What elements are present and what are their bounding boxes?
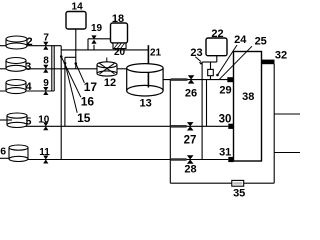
svg-text:38: 38 [242, 91, 254, 103]
svg-text:31: 31 [219, 147, 231, 159]
svg-text:23: 23 [190, 47, 202, 59]
svg-text:18: 18 [112, 13, 124, 25]
svg-text:6: 6 [0, 146, 6, 158]
svg-text:2: 2 [26, 36, 32, 48]
svg-text:27: 27 [184, 134, 197, 146]
svg-text:15: 15 [77, 111, 91, 125]
svg-text:17: 17 [84, 80, 98, 94]
svg-text:28: 28 [184, 163, 196, 175]
svg-text:13: 13 [139, 98, 151, 110]
svg-text:7: 7 [43, 33, 49, 44]
svg-text:26: 26 [185, 88, 197, 100]
svg-text:16: 16 [81, 94, 95, 108]
svg-text:9: 9 [43, 78, 49, 89]
svg-text:3: 3 [25, 61, 31, 73]
svg-text:21: 21 [150, 48, 162, 59]
svg-text:12: 12 [104, 77, 116, 89]
svg-text:4: 4 [25, 81, 32, 93]
svg-text:25: 25 [255, 35, 267, 47]
svg-text:19: 19 [91, 23, 103, 34]
svg-text:10: 10 [38, 114, 50, 125]
svg-text:14: 14 [72, 2, 84, 13]
svg-text:8: 8 [43, 56, 49, 67]
svg-text:11: 11 [39, 147, 50, 158]
svg-text:32: 32 [275, 49, 287, 61]
svg-text:5: 5 [26, 116, 32, 128]
svg-text:29: 29 [219, 84, 231, 96]
svg-text:20: 20 [114, 47, 126, 58]
svg-text:22: 22 [211, 28, 223, 40]
svg-text:35: 35 [233, 188, 245, 200]
svg-text:30: 30 [219, 114, 232, 126]
svg-text:24: 24 [234, 34, 247, 46]
